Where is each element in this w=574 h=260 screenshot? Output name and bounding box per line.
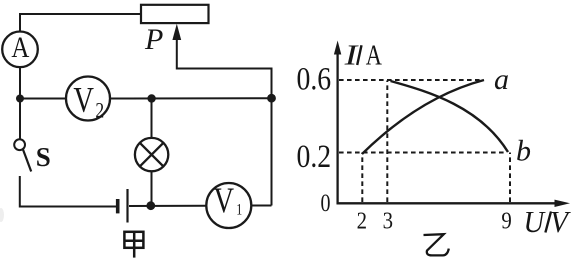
svg-text:0.2: 0.2 [297, 138, 332, 175]
switch S [14, 139, 31, 171]
node at right wire junction [267, 94, 276, 103]
svg-text:2: 2 [95, 99, 104, 123]
wire from ammeter top up and right to rheostat left terminal [20, 14, 141, 32]
scan smudge [0, 208, 4, 222]
node at battery-lamp junction [146, 201, 155, 210]
dashed guide I=0.6 [339, 79, 482, 81]
dashed guide U=3 [386, 81, 388, 203]
label jia (circuit figure name) [124, 231, 143, 258]
wire from slider P down then right then down right side to V1 row [177, 33, 272, 206]
wire lamp branch lower vertical [151, 171, 153, 205]
curve a [362, 80, 484, 154]
wire battery positive to node B and on to voltmeter V1 [129, 205, 206, 207]
svg-text:3: 3 [383, 207, 393, 234]
curve b [391, 81, 509, 152]
wire V2 right side across to right-hand vertical wire [110, 97, 272, 99]
svg-text:b: b [516, 135, 531, 168]
svg-text:2: 2 [357, 207, 367, 234]
graph y axis [334, 41, 341, 205]
wire ammeter bottom down to switch [19, 67, 21, 139]
svg-text:V: V [214, 181, 235, 221]
ammeter A [2, 32, 38, 68]
svg-text:A: A [366, 40, 383, 71]
svg-text:0: 0 [321, 189, 331, 217]
voltmeter V1 [206, 183, 251, 228]
wire left node to voltmeter V2 [20, 98, 66, 100]
dashed guide U=2 [361, 153, 363, 203]
tick label 2 [357, 207, 367, 234]
svg-text:1: 1 [236, 201, 242, 219]
wire lamp branch upper vertical [151, 99, 153, 139]
origin label 0 [321, 189, 331, 217]
wire V1 right side to right-hand vertical wire [251, 205, 271, 207]
dashed guide I=0.2 [339, 152, 504, 154]
rheostat R body [141, 5, 209, 23]
tick label 0.6 [297, 60, 332, 97]
lamp L [135, 138, 168, 171]
svg-text:V: V [73, 80, 94, 120]
y axis label I/A [343, 39, 382, 71]
label yi (graph figure name) [424, 234, 449, 255]
battery cell [118, 189, 128, 223]
tick label 3 [383, 207, 393, 234]
tick label 9 [501, 207, 511, 234]
svg-text:P: P [144, 23, 163, 56]
svg-text:a: a [494, 63, 509, 96]
svg-text:S: S [36, 142, 51, 172]
wire below switch down to bottom-left corner and right to battery [20, 176, 116, 207]
voltmeter V2 [66, 77, 110, 121]
dashed guide U=9 [509, 153, 511, 203]
svg-text:0.6: 0.6 [297, 60, 332, 97]
graph x axis [337, 200, 571, 207]
svg-text:A: A [11, 30, 29, 64]
tick label 0.2 [297, 138, 332, 175]
x axis label U/V [524, 204, 572, 239]
svg-text:9: 9 [501, 207, 511, 234]
node at V2-lamp junction [147, 94, 155, 102]
node at ammeter-V2 junction [16, 95, 24, 103]
svg-text:U: U [524, 205, 547, 239]
svg-text:I: I [343, 39, 359, 71]
rheostat slider arrow [172, 24, 181, 40]
